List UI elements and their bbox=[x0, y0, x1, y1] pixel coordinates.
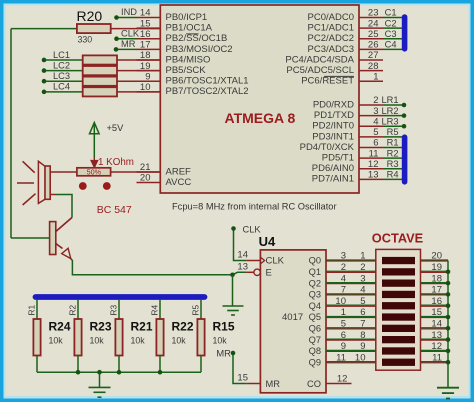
ATMEGA8 pin 6 stub bbox=[359, 146, 383, 148]
svg-text:E: E bbox=[266, 268, 272, 279]
svg-text:R21: R21 bbox=[131, 320, 153, 334]
svg-text:C1: C1 bbox=[385, 8, 397, 18]
transistor Q1 base bar bbox=[50, 222, 56, 255]
svg-text:PD3/INT1: PD3/INT1 bbox=[312, 131, 354, 142]
pot left terminal dot bbox=[79, 182, 87, 190]
svg-text:R20: R20 bbox=[77, 8, 103, 24]
wire +5V to pot wiper bbox=[93, 124, 95, 158]
svg-text:LC2: LC2 bbox=[53, 60, 70, 70]
svg-text:R4: R4 bbox=[150, 305, 160, 316]
resistor LC4 lead bbox=[117, 91, 160, 93]
svg-text:3: 3 bbox=[360, 273, 365, 284]
svg-text:20: 20 bbox=[431, 251, 442, 262]
bargraph body bbox=[376, 249, 421, 370]
wire bus to R22 bbox=[159, 300, 161, 319]
node bargraph junction 12 bbox=[446, 349, 451, 354]
svg-text:AVCC: AVCC bbox=[166, 177, 192, 188]
wire R23 to ground rail bbox=[77, 356, 79, 373]
svg-text:+5V: +5V bbox=[107, 123, 125, 133]
wire R3 to bus bbox=[383, 168, 402, 170]
bus bar (R1-R5) bbox=[36, 294, 205, 300]
wire R4 to bus bbox=[383, 178, 402, 180]
U4 pin 13 stub bbox=[246, 271, 254, 273]
wire bargraph pin 19 to ground rail bbox=[421, 271, 449, 273]
wire LR2 bbox=[383, 115, 404, 117]
wire bargraph pin 11 to ground rail bbox=[421, 362, 449, 364]
svg-text:MR: MR bbox=[121, 39, 136, 49]
resistor LC1 lead bbox=[117, 59, 160, 61]
svg-text:R3: R3 bbox=[109, 305, 119, 316]
svg-text:10k: 10k bbox=[172, 336, 187, 346]
svg-text:15: 15 bbox=[237, 373, 248, 384]
svg-text:4017: 4017 bbox=[282, 312, 303, 323]
svg-text:MR: MR bbox=[216, 349, 231, 360]
node LR1 dot bbox=[402, 103, 407, 108]
svg-text:PC1/ADC1: PC1/ADC1 bbox=[308, 23, 354, 34]
node LR3 dot bbox=[402, 124, 407, 129]
wire bargraph pin 13 to ground rail bbox=[421, 339, 449, 341]
node LC1 dot bbox=[42, 58, 47, 63]
ATMEGA8 pin 18 stub bbox=[137, 59, 161, 61]
svg-text:13: 13 bbox=[368, 170, 379, 181]
svg-text:27: 27 bbox=[368, 50, 379, 61]
transistor Q1 emitter arrow bbox=[62, 248, 71, 258]
svg-text:6: 6 bbox=[341, 330, 346, 341]
svg-text:4: 4 bbox=[360, 285, 365, 296]
wire Q8 to bargraph bbox=[326, 350, 376, 352]
svg-text:Fcpu=8 MHz from internal RC Os: Fcpu=8 MHz from internal RC Oscillator bbox=[172, 201, 337, 211]
svg-text:PD5/T1: PD5/T1 bbox=[322, 153, 354, 164]
pot wiper arrow bbox=[93, 157, 95, 161]
wire bus to R24 bbox=[36, 300, 38, 319]
resistor LC3 lead bbox=[117, 80, 160, 82]
svg-text:R23: R23 bbox=[90, 320, 112, 334]
bargraph segment 2 bbox=[382, 268, 415, 275]
svg-text:25: 25 bbox=[368, 29, 379, 40]
svg-text:Q2: Q2 bbox=[309, 278, 321, 288]
svg-text:2: 2 bbox=[341, 262, 346, 273]
wire C4 to bus bbox=[383, 48, 402, 50]
svg-text:4: 4 bbox=[341, 273, 346, 284]
node CLK dot (U4) bbox=[231, 226, 236, 231]
bus bar (C1-C4) bbox=[402, 17, 408, 49]
overline on RESET of PC6 bbox=[324, 75, 354, 77]
wire junction to ground bbox=[232, 275, 234, 306]
speaker sound wave 3 bbox=[23, 194, 36, 205]
U4 E inversion bubble bbox=[254, 269, 260, 275]
svg-text:9: 9 bbox=[341, 341, 346, 352]
wire bargraph pin 18 to ground rail bbox=[421, 283, 449, 285]
resistor LC2 body bbox=[83, 66, 117, 75]
node LC4 dot bbox=[42, 90, 47, 95]
svg-text:24: 24 bbox=[368, 18, 379, 29]
node bargraph junction 13 bbox=[446, 337, 451, 342]
svg-text:17: 17 bbox=[140, 40, 151, 51]
svg-text:10: 10 bbox=[335, 296, 346, 307]
transistor Q1 emitter bbox=[56, 244, 63, 249]
ATMEGA8 pin 5 stub bbox=[359, 136, 383, 138]
svg-text:Q7: Q7 bbox=[309, 335, 321, 345]
transistor Q1 collector bbox=[56, 218, 72, 232]
svg-text:PC2/ADC2: PC2/ADC2 bbox=[308, 33, 354, 44]
net CLK wire (pin16) bbox=[117, 38, 137, 40]
resistor R24 body bbox=[33, 319, 40, 356]
speaker LS1 driver bbox=[45, 166, 50, 199]
wire bus to R15 bbox=[200, 300, 202, 319]
svg-text:Q5: Q5 bbox=[309, 312, 321, 322]
bargraph segment 10 bbox=[382, 359, 415, 366]
wire bargraph pin 14 to ground rail bbox=[421, 328, 449, 330]
wire R20 to pin15 bbox=[111, 28, 161, 30]
wire Q6 to bargraph bbox=[326, 328, 376, 330]
node rail junction ground tap bbox=[97, 370, 102, 375]
svg-text:10k: 10k bbox=[49, 336, 64, 346]
bargraph segment 1 bbox=[382, 257, 415, 264]
wire speaker to pot bbox=[50, 171, 77, 173]
svg-text:CLK: CLK bbox=[243, 225, 262, 235]
svg-text:R22: R22 bbox=[172, 320, 194, 334]
wire Q0 to bargraph bbox=[326, 260, 376, 262]
node rail junction R23 bbox=[76, 370, 81, 375]
speaker bottom stub bbox=[50, 194, 55, 196]
svg-text:1: 1 bbox=[360, 251, 365, 262]
resistor R15 body bbox=[197, 319, 204, 356]
wire R22 to ground rail bbox=[159, 356, 161, 373]
svg-text:5: 5 bbox=[360, 296, 365, 307]
svg-text:R2: R2 bbox=[68, 305, 78, 316]
U4 pin 15 stub bbox=[246, 383, 260, 385]
ATMEGA8 pin 24 stub bbox=[359, 27, 383, 29]
ground rail wire bbox=[37, 371, 201, 373]
node bargraph junction 17 bbox=[446, 292, 451, 297]
svg-text:R4: R4 bbox=[387, 170, 399, 180]
resistor R22 body bbox=[156, 319, 163, 356]
wire Q9 to bargraph bbox=[326, 362, 376, 364]
node CLK dot bbox=[114, 36, 119, 41]
node LC3 dot bbox=[42, 79, 47, 84]
node IND dot bbox=[114, 15, 119, 20]
svg-text:13: 13 bbox=[431, 330, 442, 341]
wire C2 to bus bbox=[383, 27, 402, 29]
microcontroller U1 ATMEGA8 body bbox=[160, 5, 359, 193]
svg-text:MR: MR bbox=[266, 379, 281, 389]
wire LC3 bbox=[44, 80, 83, 82]
ATMEGA8 pin 27 stub bbox=[359, 59, 383, 61]
ATMEGA8 pin 16 stub bbox=[137, 38, 161, 40]
svg-text:PD6/AIN0: PD6/AIN0 bbox=[312, 163, 354, 174]
svg-text:R1: R1 bbox=[27, 305, 37, 316]
ATMEGA8 pin 3 stub bbox=[359, 115, 383, 117]
svg-text:12: 12 bbox=[431, 341, 442, 352]
svg-text:PD1/TXD: PD1/TXD bbox=[314, 110, 354, 121]
net CLK wire to U4 bbox=[234, 229, 247, 261]
svg-text:OCTAVE: OCTAVE bbox=[372, 231, 424, 246]
svg-text:Q1: Q1 bbox=[309, 267, 321, 277]
wire Q7 to bargraph bbox=[326, 339, 376, 341]
svg-text:LC4: LC4 bbox=[53, 82, 70, 92]
svg-text:13: 13 bbox=[237, 262, 248, 273]
svg-text:3: 3 bbox=[373, 106, 378, 117]
bargraph ground vertical wire bbox=[447, 261, 449, 388]
svg-text:330: 330 bbox=[78, 35, 93, 45]
svg-text:PB4/MISO: PB4/MISO bbox=[166, 54, 211, 65]
U4 pin 12 CO stub bbox=[326, 383, 352, 385]
ground (resistor bank) bbox=[89, 386, 111, 388]
svg-text:10k: 10k bbox=[131, 336, 146, 346]
svg-text:R3: R3 bbox=[387, 159, 399, 169]
resistor LC4 body bbox=[83, 87, 117, 96]
svg-text:15: 15 bbox=[431, 307, 442, 318]
wire R15 to ground rail bbox=[200, 356, 202, 373]
pot right terminal dot bbox=[103, 182, 111, 190]
node MR dot bbox=[114, 47, 119, 52]
svg-text:PC6/RESET: PC6/RESET bbox=[301, 76, 354, 87]
svg-text:IND: IND bbox=[121, 7, 137, 17]
svg-text:26: 26 bbox=[368, 40, 379, 51]
svg-text:U4: U4 bbox=[259, 234, 276, 249]
ATMEGA8 pin 15 stub bbox=[137, 27, 161, 29]
svg-text:7: 7 bbox=[341, 285, 346, 296]
ATMEGA8 pin 23 stub bbox=[359, 17, 383, 19]
ATMEGA8 pin 11 stub bbox=[359, 157, 383, 159]
wire speaker to collector bbox=[56, 195, 73, 218]
overline on SS of PB2 bbox=[186, 33, 198, 35]
svg-text:11: 11 bbox=[369, 148, 379, 159]
speaker sound wave 1 bbox=[23, 161, 35, 172]
ATMEGA8 pin 19 stub bbox=[137, 70, 161, 72]
svg-text:LR3: LR3 bbox=[381, 116, 398, 126]
ground (bargraph) bbox=[437, 387, 459, 389]
resistor R23 body bbox=[74, 319, 81, 356]
svg-text:PC5/ADC5/SCL: PC5/ADC5/SCL bbox=[286, 65, 354, 76]
ATMEGA8 pin 25 stub bbox=[359, 38, 383, 40]
svg-text:R15: R15 bbox=[213, 320, 235, 334]
svg-text:12: 12 bbox=[368, 159, 379, 170]
svg-text:3: 3 bbox=[341, 251, 346, 262]
svg-text:19: 19 bbox=[431, 262, 442, 273]
svg-text:LR2: LR2 bbox=[381, 106, 398, 116]
bargraph segment 4 bbox=[382, 291, 415, 298]
svg-text:17: 17 bbox=[431, 285, 442, 296]
wire R21 to ground rail bbox=[118, 356, 120, 373]
svg-text:PD4/T0/XCK: PD4/T0/XCK bbox=[300, 142, 355, 153]
ATMEGA8 pin 1 stub bbox=[359, 80, 383, 82]
node bargraph junction 15 bbox=[446, 315, 451, 320]
wire Q1 to bargraph bbox=[326, 271, 376, 273]
svg-text:PC0/ADC0: PC0/ADC0 bbox=[308, 12, 354, 23]
node bargraph junction 11 bbox=[446, 360, 451, 365]
svg-text:PB3/MOSI/OC2: PB3/MOSI/OC2 bbox=[166, 44, 233, 55]
svg-text:PB1/OC1A: PB1/OC1A bbox=[166, 23, 213, 34]
node rail junction R21 bbox=[117, 370, 122, 375]
node rail junction R22 bbox=[158, 370, 163, 375]
wire bargraph pin 15 to ground rail bbox=[421, 317, 449, 319]
svg-text:6: 6 bbox=[373, 138, 378, 149]
svg-text:PB2/SS/OC1B: PB2/SS/OC1B bbox=[166, 33, 228, 44]
resistor R21 body bbox=[115, 319, 122, 356]
resistor LC3 body bbox=[83, 77, 117, 86]
node bargraph junction 18 bbox=[446, 281, 451, 286]
svg-text:10k: 10k bbox=[213, 336, 228, 346]
svg-text:CLK: CLK bbox=[266, 256, 285, 267]
svg-text:CLK: CLK bbox=[121, 28, 140, 38]
svg-text:14: 14 bbox=[431, 319, 442, 330]
svg-text:BC 547: BC 547 bbox=[97, 204, 132, 216]
svg-text:5: 5 bbox=[341, 319, 346, 330]
wire pot to AREF bbox=[111, 171, 161, 173]
wire Q5 to bargraph bbox=[326, 317, 376, 319]
node bargraph junction 16 bbox=[446, 303, 451, 308]
wire Q4 to bargraph bbox=[326, 305, 376, 307]
ATMEGA8 pin 14 stub bbox=[137, 17, 161, 19]
wire base bbox=[11, 237, 50, 239]
svg-text:Q8: Q8 bbox=[309, 346, 321, 356]
wire R20 left to left rail bbox=[11, 28, 77, 30]
ATMEGA8 pin 21 AREF stub bbox=[137, 171, 161, 173]
ATMEGA8 pin 17 stub bbox=[137, 48, 161, 50]
svg-text:28: 28 bbox=[368, 61, 379, 72]
svg-text:7: 7 bbox=[360, 319, 365, 330]
svg-text:9: 9 bbox=[360, 341, 365, 352]
wire R24 to ground rail bbox=[36, 356, 38, 373]
svg-text:ATMEGA 8: ATMEGA 8 bbox=[225, 110, 296, 126]
svg-text:8: 8 bbox=[360, 330, 365, 341]
svg-text:20: 20 bbox=[140, 173, 151, 184]
potentiometer RV1 body bbox=[77, 168, 111, 176]
svg-text:5: 5 bbox=[373, 127, 378, 138]
wire bus to R23 bbox=[77, 300, 79, 319]
resistor LC1 body bbox=[83, 55, 117, 64]
svg-text:PD2/INT0: PD2/INT0 bbox=[312, 121, 354, 132]
svg-text:LC1: LC1 bbox=[53, 50, 70, 60]
ATMEGA8 pin 10 stub bbox=[137, 91, 161, 93]
svg-text:12: 12 bbox=[337, 373, 348, 384]
node LC2 dot bbox=[42, 68, 47, 73]
wire LR1 bbox=[383, 104, 404, 106]
svg-text:2: 2 bbox=[373, 95, 378, 106]
wire Q3 to bargraph bbox=[326, 294, 376, 296]
wire left rail vertical bbox=[10, 29, 12, 238]
wire Q2 to bargraph bbox=[326, 283, 376, 285]
svg-text:R1: R1 bbox=[387, 138, 399, 148]
power +5V symbol bbox=[90, 123, 100, 134]
net MR wire (pin17) bbox=[116, 48, 137, 50]
wire R2 to bus bbox=[383, 157, 402, 159]
net IND wire bbox=[117, 17, 137, 19]
wire bargraph pin 20 to ground rail bbox=[421, 260, 449, 262]
bargraph segment 7 bbox=[382, 325, 415, 332]
svg-text:R2: R2 bbox=[387, 148, 399, 158]
bargraph segment 8 bbox=[382, 336, 415, 343]
U4 pin 14 stub bbox=[246, 260, 260, 262]
svg-text:PB0/ICP1: PB0/ICP1 bbox=[166, 12, 208, 23]
ATMEGA8 pin 26 stub bbox=[359, 48, 383, 50]
ATMEGA8 pin 4 stub bbox=[359, 125, 383, 127]
svg-text:15: 15 bbox=[140, 18, 151, 29]
wire bargraph pin 16 to ground rail bbox=[421, 305, 449, 307]
svg-text:2: 2 bbox=[360, 262, 365, 273]
wire LC4 bbox=[44, 91, 83, 93]
svg-text:PD0/RXD: PD0/RXD bbox=[313, 99, 354, 110]
svg-text:PB6/TOSC1/XTAL1: PB6/TOSC1/XTAL1 bbox=[166, 76, 249, 87]
wire R1 to bus bbox=[383, 146, 402, 148]
svg-text:23: 23 bbox=[368, 8, 379, 19]
wire R5 to bus bbox=[383, 136, 402, 138]
svg-text:16: 16 bbox=[140, 29, 151, 40]
svg-text:PD7/AIN1: PD7/AIN1 bbox=[312, 174, 354, 185]
svg-text:Q3: Q3 bbox=[309, 290, 321, 300]
svg-text:Q0: Q0 bbox=[309, 256, 321, 266]
speaker sound wave 2 bbox=[17, 182, 34, 184]
wire C1 to bus bbox=[383, 17, 402, 19]
bus bar (R1-R5 right) bbox=[402, 137, 408, 182]
svg-text:LC3: LC3 bbox=[53, 71, 70, 81]
svg-text:6: 6 bbox=[360, 307, 365, 318]
svg-text:14: 14 bbox=[237, 250, 248, 261]
node bargraph junction 19 bbox=[446, 270, 451, 275]
U4 clock input triangle bbox=[261, 257, 265, 263]
svg-text:PC3/ADC3: PC3/ADC3 bbox=[308, 44, 354, 55]
ATMEGA8 pin 13 stub bbox=[359, 178, 383, 180]
ATMEGA8 pin 9 stub bbox=[137, 80, 161, 82]
svg-text:11: 11 bbox=[432, 352, 442, 363]
net MR wire to U4 bbox=[233, 353, 246, 384]
ground (U4 enable) bbox=[223, 305, 244, 307]
wire LC1 bbox=[44, 59, 83, 61]
svg-text:Q4: Q4 bbox=[309, 301, 321, 311]
wire bus to R21 bbox=[118, 300, 120, 319]
svg-text:AREF: AREF bbox=[166, 166, 192, 177]
node MR dot (U4) bbox=[231, 351, 236, 356]
svg-text:4: 4 bbox=[373, 116, 378, 127]
svg-text:CO: CO bbox=[307, 379, 321, 389]
svg-text:10: 10 bbox=[355, 352, 366, 363]
svg-text:R5: R5 bbox=[387, 127, 399, 137]
svg-text:1: 1 bbox=[373, 71, 378, 82]
bargraph segment 5 bbox=[382, 302, 415, 309]
wire LR3 bbox=[383, 125, 404, 127]
node LR2 dot bbox=[402, 113, 407, 118]
svg-text:14: 14 bbox=[140, 8, 151, 19]
ATMEGA8 pin 28 stub bbox=[359, 70, 383, 72]
svg-text:C3: C3 bbox=[385, 29, 397, 39]
svg-text:11: 11 bbox=[336, 352, 346, 363]
node emitter-ground junction bbox=[230, 273, 235, 278]
wire LC2 bbox=[44, 70, 83, 72]
ATMEGA8 pin 2 stub bbox=[359, 104, 383, 106]
wire bargraph pin 17 to ground rail bbox=[421, 294, 449, 296]
svg-text:Q9: Q9 bbox=[309, 357, 321, 367]
svg-text:C4: C4 bbox=[385, 40, 397, 50]
wire emitter to E pin bbox=[71, 259, 247, 275]
svg-text:1 KOhm: 1 KOhm bbox=[98, 157, 134, 168]
bargraph segment 3 bbox=[382, 280, 415, 287]
bargraph segment 9 bbox=[382, 347, 415, 354]
bargraph segment 6 bbox=[382, 313, 415, 320]
resistor R20 body bbox=[77, 24, 111, 33]
counter U4 4017 body bbox=[260, 250, 326, 393]
svg-text:PB7/TOSC2/XTAL2: PB7/TOSC2/XTAL2 bbox=[166, 86, 249, 97]
node bargraph junction 14 bbox=[446, 326, 451, 331]
svg-text:C2: C2 bbox=[385, 18, 397, 28]
svg-text:PC4/ADC4/SDA: PC4/ADC4/SDA bbox=[285, 54, 354, 65]
ATMEGA8 pin 20 AVCC stub bbox=[137, 182, 161, 184]
wire rail to ground bbox=[99, 372, 101, 387]
speaker LS1 cone bbox=[38, 161, 45, 203]
svg-text:LR1: LR1 bbox=[381, 95, 398, 105]
svg-text:R5: R5 bbox=[191, 305, 201, 316]
svg-text:18: 18 bbox=[431, 273, 442, 284]
